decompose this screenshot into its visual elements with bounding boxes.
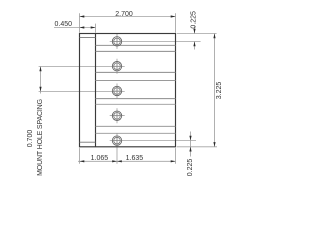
svg-text:0.700: 0.700 — [27, 130, 34, 148]
svg-text:1.065: 1.065 — [91, 155, 109, 162]
svg-text:2.700: 2.700 — [115, 11, 133, 18]
svg-text:MOUNT HOLE SPACING: MOUNT HOLE SPACING — [37, 99, 44, 176]
svg-text:0.450: 0.450 — [55, 21, 73, 28]
svg-text:0.225: 0.225 — [191, 11, 198, 29]
svg-text:1.635: 1.635 — [126, 155, 144, 162]
svg-text:3.225: 3.225 — [216, 82, 223, 100]
svg-text:0.225: 0.225 — [187, 159, 194, 177]
